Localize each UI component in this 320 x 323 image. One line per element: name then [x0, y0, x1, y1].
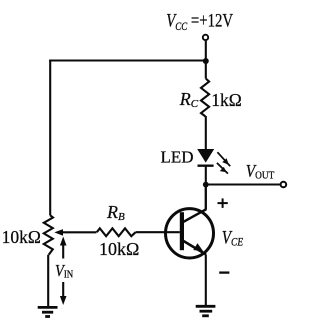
label VOUT	[246, 161, 275, 182]
ground right	[196, 306, 216, 316]
LED light arrow 1	[217, 152, 230, 166]
wire top horizontal	[49, 59, 206, 61]
label VCE	[222, 227, 244, 249]
label LED	[161, 147, 194, 166]
wire LED to collector with VOUT tap	[205, 166, 207, 209]
label VCC = +12V	[166, 10, 234, 34]
potentiometer 10k body	[44, 215, 53, 255]
transistor base bar	[180, 212, 184, 250]
svg-text:LED: LED	[161, 147, 194, 166]
node VOUT junction	[203, 182, 209, 188]
wire pot bottom to ground	[47, 255, 49, 307]
LED light arrow 2	[217, 163, 228, 174]
LED cathode bar	[198, 164, 214, 166]
label RB	[106, 202, 125, 223]
potentiometer value 10kOhm	[2, 227, 41, 247]
transistor emitter diagonal with arrow	[184, 241, 207, 255]
wire RC to LED	[205, 116, 207, 150]
wire junction to RC bottom ... RC resistor	[205, 61, 207, 79]
wire collector up to junction	[205, 185, 207, 210]
LED D1 triangle	[197, 149, 214, 163]
wire VOUT	[206, 183, 281, 185]
transistor Q1 circle	[166, 209, 214, 258]
label plus	[218, 198, 228, 208]
label VIN	[55, 262, 73, 281]
VCC terminal	[203, 35, 208, 40]
ground left	[38, 307, 58, 316]
svg-text:10kΩ: 10kΩ	[2, 227, 41, 247]
wire RB to base	[136, 231, 180, 233]
potentiometer wiper arrow	[54, 229, 96, 236]
label minus	[219, 271, 229, 273]
VOUT terminal	[281, 182, 287, 188]
node junction top	[203, 58, 209, 64]
label RC	[179, 89, 199, 110]
resistor RC body	[201, 79, 209, 117]
label RC value 1kOhm	[211, 90, 242, 110]
wire VCC terminal to junction	[205, 41, 207, 61]
transistor collector diagonal	[184, 209, 207, 222]
resistor RB body	[97, 228, 136, 236]
wire emitter down to ground	[205, 255, 207, 307]
svg-text:10kΩ: 10kΩ	[99, 239, 139, 259]
wire left rail	[49, 60, 51, 216]
label RB value 10kOhm	[99, 239, 139, 259]
svg-text:1kΩ: 1kΩ	[211, 90, 242, 110]
VIN arrows	[60, 237, 67, 306]
